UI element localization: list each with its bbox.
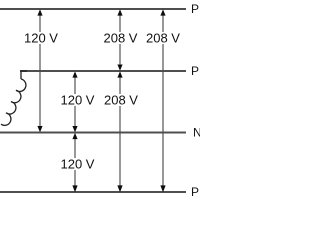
svg-text:120 V: 120 V — [61, 93, 95, 108]
svg-text:208 V: 208 V — [104, 93, 138, 108]
svg-text:208 V: 208 V — [146, 31, 180, 46]
wire: phase A conductor (top bus) — [0, 8, 186, 10]
arrow: 120 V measurement phase B to neutral, x=75 — [72, 71, 77, 132]
svg-text:120 V: 120 V — [24, 31, 58, 46]
arrow: 208 V measurement phase B to phase C, x=120 — [117, 71, 122, 192]
arrow: 120 V measurement phase A to neutral, x=40 — [37, 9, 42, 132]
inductor: transformer secondary winding coil — [1, 79, 26, 125]
svg-text:208 V: 208 V — [104, 31, 138, 46]
wire: phase C conductor (bottom bus) — [0, 191, 186, 193]
svg-text:P: P — [191, 64, 199, 78]
wire: phase B conductor (second bus) — [20, 70, 186, 72]
svg-text:N: N — [193, 126, 200, 140]
wire: neutral conductor (third bus) — [0, 132, 186, 134]
svg-text:120 V: 120 V — [61, 157, 95, 172]
svg-text:P: P — [191, 2, 199, 16]
wire: stub from phase B bus down to winding — [21, 71, 27, 79]
svg-text:P: P — [191, 185, 199, 199]
arrow: 208 V measurement phase A to phase B, x=120 — [117, 9, 122, 70]
arrow: 120 V measurement neutral to phase C, x=75 — [72, 133, 77, 193]
arrow: 208 V measurement phase A to phase C, x=163 — [160, 9, 165, 192]
label background knockouts — [24, 32, 59, 44]
